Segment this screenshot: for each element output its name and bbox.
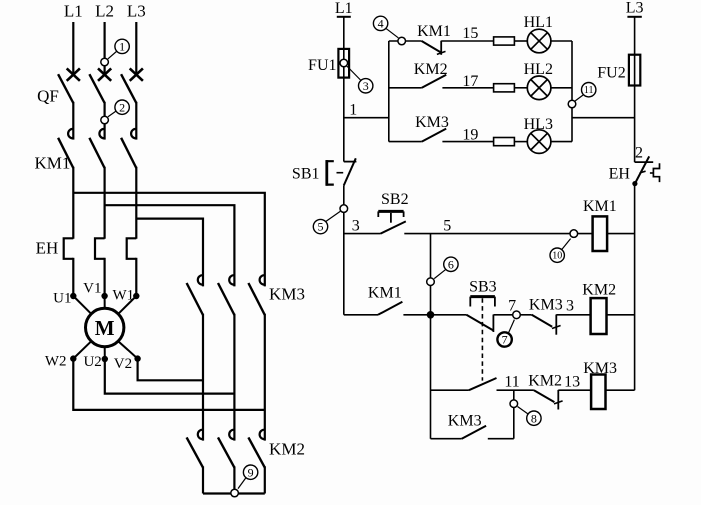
contact KM1 auxiliary self-hold [378, 302, 402, 315]
circuit breaker QF pole 3 contact cross [130, 68, 143, 80]
contactor KM2 pole 1 fixed contact hook [198, 430, 203, 439]
svg-text:SB2: SB2 [381, 191, 409, 208]
wire to lamp HL2 [514, 87, 527, 89]
motor terminal U2 [102, 356, 108, 362]
thermal relay EH heater element phase 1 [64, 238, 74, 258]
svg-text:10: 10 [552, 251, 562, 262]
wire KM2 NC to KM3 coil [558, 389, 591, 391]
contact SB3 lower (NO) [469, 378, 497, 390]
circled number 10 [550, 248, 564, 262]
svg-text:3: 3 [566, 298, 574, 315]
circuit breaker QF pole 2 blade [89, 74, 104, 103]
pushbutton SB2 (NO start) [378, 211, 406, 233]
circled number 3 [359, 79, 373, 93]
svg-text:SB1: SB1 [292, 166, 320, 183]
node circle 3 marker on FU1 [340, 59, 348, 67]
wire EH phase 1 to motor terminal [72, 258, 74, 296]
leader to circled 2 [108, 111, 117, 117]
wire KM3 pole 2 down to KM2 pole 2 [233, 314, 235, 441]
circled number 8 [527, 411, 541, 425]
leader from circled 5 [326, 211, 341, 221]
leader to circled 3 [347, 66, 361, 81]
contactor KM1 pole 3 blade [121, 138, 136, 168]
node circle 10 marker [570, 230, 578, 238]
wire KM3 aux row [431, 438, 462, 440]
svg-text:7: 7 [502, 333, 508, 347]
circled number 5 [313, 219, 327, 233]
wire KM2 pole 2 to bottom bus [233, 466, 235, 493]
circuit breaker QF pole 2 contact cross [98, 68, 111, 80]
wire lamp row 1 right [551, 40, 572, 42]
wire node 1 to lamp branch [344, 117, 389, 119]
svg-text:KM1: KM1 [417, 23, 451, 40]
resistor box row 1 [494, 37, 515, 45]
wire EH phase 3 to motor terminal [135, 258, 137, 296]
leader to circled 8 [518, 407, 529, 415]
wire U2 to KM pole 2 column [105, 359, 235, 394]
leader to circled 1 [108, 51, 117, 59]
fuse FU2 [629, 55, 640, 86]
wire KM1 aux to junction [403, 314, 466, 316]
wire lamp row 2 right [551, 87, 572, 89]
contactor KM3 pole 1 blade [187, 283, 203, 315]
contactor KM1 pole 3 fixed contact hook [131, 129, 136, 138]
svg-text:11: 11 [504, 374, 519, 391]
node circle 8 marker [510, 400, 518, 408]
circled number 11 [582, 83, 596, 97]
contact KM2 interlock (NC) [534, 390, 555, 402]
motor terminal V1 [101, 293, 107, 299]
svg-text:3: 3 [352, 218, 360, 235]
svg-text:KM1: KM1 [583, 198, 617, 215]
contactor KM1 pole 2 blade [89, 138, 104, 168]
wire lamp row 2 left [389, 87, 422, 89]
wire main row left [344, 233, 381, 235]
wire KM2 coil to right rail [607, 314, 635, 316]
contactor KM3 pole 1 fixed contact hook [198, 275, 203, 284]
svg-text:KM2: KM2 [582, 282, 616, 299]
junction dot [427, 311, 435, 319]
lamp HL3 [527, 130, 551, 154]
contactor KM3 pole 3 fixed contact hook [260, 275, 265, 284]
svg-text:L3: L3 [626, 0, 644, 17]
svg-text:15: 15 [462, 25, 478, 42]
svg-text:FU1: FU1 [308, 57, 336, 74]
circled number 1 [115, 39, 129, 53]
terminal tick L3 [627, 16, 641, 18]
circled number 4 [373, 16, 387, 30]
circled number 7 [497, 332, 511, 346]
circuit breaker QF pole 1 contact cross [67, 68, 80, 80]
wire KM1 coil to right rail [607, 233, 635, 235]
contactor KM2 pole 2 blade [218, 437, 234, 467]
circled number 2 [115, 100, 129, 114]
contactor KM1 pole 1 fixed contact hook [68, 129, 73, 138]
node circle 11 marker on lamp rail [568, 100, 576, 108]
wire KM3 NC to KM2 coil [556, 314, 590, 316]
wire KM1 pole 2 down to EH [103, 167, 105, 239]
wire to lamp HL1 [514, 40, 527, 42]
wire L3 down to FU2 and EH [634, 17, 636, 162]
svg-text:KM3: KM3 [448, 413, 482, 430]
svg-text:13: 13 [564, 374, 580, 391]
resistor box row 3 [494, 138, 515, 146]
motor terminal V2 [134, 355, 140, 361]
motor terminal W2 [70, 355, 76, 361]
wire to lamp HL3 [514, 141, 527, 143]
circled number 9 [243, 465, 257, 479]
svg-text:1: 1 [119, 40, 125, 54]
svg-text:1: 1 [349, 101, 357, 118]
svg-text:L3: L3 [127, 2, 146, 21]
lamp HL2 [527, 76, 551, 100]
svg-text:KM1: KM1 [34, 154, 70, 173]
wire KM3 coil row left [431, 389, 469, 391]
svg-text:FU2: FU2 [597, 65, 625, 82]
svg-text:M: M [95, 316, 115, 340]
svg-text:KM2: KM2 [414, 61, 448, 78]
wire KM3 aux up to node 11 [488, 438, 514, 440]
pushbutton SB3 compound [466, 297, 495, 381]
circled number 6 [444, 257, 458, 271]
wire SB3 to KM3 NC [494, 314, 532, 316]
wire KM2 pole 3 to bottom bus [264, 466, 266, 493]
svg-text:V2: V2 [114, 356, 132, 372]
node circle 1 marker on L2 [101, 58, 109, 66]
wire KM3 coil to right rail [606, 389, 635, 391]
svg-text:SB3: SB3 [469, 279, 497, 296]
svg-text:KM3: KM3 [583, 360, 617, 377]
wire QF pole 1 to KM1 [72, 102, 74, 140]
wire L3 incoming [135, 22, 137, 75]
contactor KM2 pole 1 blade [187, 437, 203, 467]
contact KM3 (lamp row 3) [422, 129, 446, 142]
svg-text:KM2: KM2 [269, 440, 305, 459]
wire W1 to motor [118, 296, 136, 314]
thermal relay contact EH [632, 156, 659, 186]
svg-text:11: 11 [584, 85, 594, 96]
svg-text:KM3: KM3 [415, 114, 449, 131]
wire bus from phase 2 to KM3 pole 2 [105, 205, 235, 286]
svg-text:KM2: KM2 [528, 373, 562, 390]
contactor KM3 pole 2 fixed contact hook [229, 275, 234, 284]
svg-text:EH: EH [609, 166, 631, 183]
motor M [86, 308, 124, 346]
node circle 4 marker on lamp row 1 [398, 37, 406, 45]
circuit breaker QF pole 1 blade [58, 74, 73, 103]
node circle 5 marker [340, 205, 348, 213]
wire SB3 lower to node 11 [497, 389, 534, 391]
wire lamp rail to right rail [572, 117, 635, 119]
contact KM3 interlock (NC) [532, 315, 553, 327]
thermal relay EH heater element phase 3 [127, 238, 137, 258]
wire V1 to motor [104, 296, 106, 308]
wire lamp row 3 left [389, 141, 422, 143]
wire KM3 pole 3 down to KM2 pole 3 [264, 314, 266, 441]
svg-text:2: 2 [635, 145, 643, 162]
wire lamp branch rail [388, 41, 390, 142]
svg-text:4: 4 [378, 17, 384, 31]
wire QF pole 3 to KM1 [135, 102, 137, 140]
contactor KM3 pole 3 blade [248, 283, 264, 315]
svg-text:HL2: HL2 [524, 61, 553, 78]
wire lamp right rail [571, 41, 573, 142]
svg-text:L1: L1 [64, 2, 83, 21]
wire KM2 pole 1 to bottom bus [202, 466, 204, 493]
terminal tick L1 [337, 16, 351, 18]
wire lamp row 1 middle [441, 40, 493, 42]
svg-text:L1: L1 [335, 0, 353, 17]
svg-text:6: 6 [448, 257, 454, 271]
svg-text:HL1: HL1 [524, 14, 553, 31]
wire EH down right rail [634, 184, 636, 391]
wire KM1 aux row [344, 314, 378, 316]
svg-text:3: 3 [363, 79, 369, 93]
thermal relay EH heater element phase 2 [95, 238, 105, 258]
svg-text:5: 5 [443, 218, 451, 235]
svg-text:KM3: KM3 [269, 285, 305, 304]
motor terminal U1 [70, 293, 76, 299]
svg-text:EH: EH [36, 239, 59, 258]
contactor KM3 pole 2 blade [218, 283, 234, 315]
wire lamp row 3 middle [442, 141, 493, 143]
node circle 6 marker [427, 278, 435, 286]
coil KM2 [591, 298, 607, 334]
wire KM3 pole 1 down to KM2 pole 1 [202, 314, 204, 441]
wire L1 down to FU1 and node 1 [343, 17, 345, 162]
svg-text:L2: L2 [95, 2, 114, 21]
wire U1 to motor [73, 296, 91, 314]
node circle 7 marker [513, 311, 521, 319]
node circle 9 marker on bottom bus [231, 489, 239, 497]
wire bus from phase 3 to KM3 pole 1 [136, 219, 203, 287]
fuse FU1 [338, 49, 349, 78]
svg-text:2: 2 [119, 100, 125, 114]
wire bottom bus shorting KM2 poles [203, 492, 265, 494]
leader from circled 6 [434, 269, 446, 278]
wire V2 to KM pole 1 column [138, 359, 203, 381]
svg-text:U1: U1 [53, 291, 71, 307]
wire SB1 down to main row [343, 185, 345, 314]
wire KM1 pole 1 down to EH [72, 167, 74, 239]
circuit breaker QF pole 3 blade [121, 74, 136, 103]
coil KM3 [591, 375, 605, 410]
wire bus from phase 1 to KM3 pole 3 [73, 193, 264, 287]
contactor KM2 pole 3 blade [248, 437, 264, 467]
contactor KM1 pole 1 blade [58, 138, 73, 168]
coil KM1 [593, 216, 608, 251]
svg-text:HL3: HL3 [524, 116, 553, 133]
contact KM3 auxiliary (NO) [462, 426, 486, 439]
lamp HL1 [527, 29, 551, 53]
motor terminal W1 [133, 293, 139, 299]
wire L1 incoming [72, 22, 74, 75]
wire W2 to motor [73, 341, 91, 358]
svg-text:8: 8 [531, 411, 537, 425]
contact KM2 (lamp row 2) [422, 75, 446, 88]
wire U2 to motor [104, 347, 106, 359]
wire lamp row 3 right [551, 141, 572, 143]
wire lamp row 2 middle [442, 87, 493, 89]
contactor KM2 pole 3 fixed contact hook [260, 430, 265, 439]
leader from circled 7 [508, 320, 514, 334]
svg-text:KM3: KM3 [529, 297, 563, 314]
wire EH phase 2 to motor terminal [103, 258, 105, 296]
leader from circled 4 [386, 28, 399, 38]
svg-text:QF: QF [37, 87, 59, 106]
wire node 11 down to KM3 aux [513, 390, 515, 439]
wire QF pole 2 to KM1 [103, 102, 105, 140]
leader from circled 11 [575, 95, 583, 101]
pushbutton SB1 (NC stop) [327, 158, 357, 185]
wire W2 to KM pole 3 column [73, 359, 264, 410]
svg-text:9: 9 [248, 465, 254, 479]
contactor KM1 pole 2 fixed contact hook [99, 129, 104, 138]
wire L2 incoming [103, 22, 105, 75]
svg-text:W2: W2 [45, 354, 67, 370]
svg-text:5: 5 [318, 220, 324, 234]
wire middle rail down [430, 234, 432, 439]
wire KM1 pole 3 down to EH [135, 167, 137, 239]
svg-text:V1: V1 [83, 281, 101, 297]
leader from circled 10 [562, 239, 571, 250]
wire V2 to motor [118, 341, 137, 358]
svg-text:KM1: KM1 [368, 285, 402, 302]
svg-text:U2: U2 [83, 354, 101, 370]
leader to circled 9 [238, 478, 246, 489]
contact KM1 (lamp row 1) [422, 41, 446, 55]
node circle 2 marker on QF pole 2 [101, 116, 109, 124]
wire lamp row 1 left [389, 40, 422, 42]
contactor KM2 pole 2 fixed contact hook [229, 430, 234, 439]
wire main row right [404, 233, 592, 235]
resistor box row 2 [494, 84, 515, 92]
